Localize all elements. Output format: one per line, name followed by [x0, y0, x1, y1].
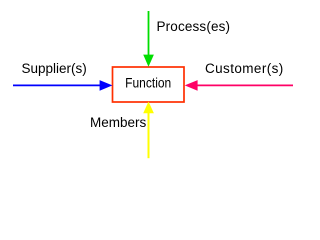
svg-text:Supplier(s): Supplier(s) [22, 61, 87, 76]
label Customer(s) [205, 61, 284, 76]
label Process(es) [157, 19, 231, 34]
wire green process arrow [143, 11, 154, 67]
svg-text:Function: Function [125, 75, 171, 91]
wire yellow members arrow [143, 102, 154, 159]
label Members [90, 115, 147, 130]
svg-text:Members: Members [90, 115, 147, 130]
label Function [125, 75, 171, 91]
svg-text:Process(es): Process(es) [157, 19, 231, 34]
svg-text:Customer(s): Customer(s) [205, 61, 284, 76]
wire pink customer arrow [185, 80, 293, 91]
label Supplier(s) [22, 61, 87, 76]
function box [113, 67, 185, 102]
wire blue supplier arrow [13, 80, 112, 91]
